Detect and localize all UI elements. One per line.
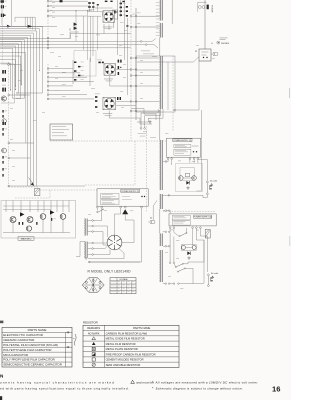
capacitor C21 column bbox=[2, 122, 7, 136]
transformer T1 bottom winding bbox=[159, 209, 162, 282]
board edge dash line right bbox=[130, 0, 132, 141]
wire bus vertical v3 bbox=[127, 18, 129, 95]
transistor Q14 circled bbox=[2, 119, 6, 123]
wire from P14 bbox=[10, 157, 30, 159]
wire from P15 bbox=[10, 185, 31, 187]
connector block frame bbox=[1, 64, 15, 103]
brace between tables bbox=[73, 334, 76, 345]
wires IC1 input network bbox=[88, 4, 113, 16]
wire bus vertical v2 bbox=[124, 0, 126, 60]
resistor R171 cluster bbox=[95, 94, 100, 108]
voltage selector plug figure bbox=[82, 278, 104, 292]
node pin P14 bbox=[8, 157, 10, 159]
wire from P12 bbox=[10, 94, 30, 96]
note schematic change bbox=[152, 386, 243, 390]
power input jack J1 bbox=[198, 0, 209, 17]
resistor chain R135 bbox=[120, 0, 126, 17]
IC3 label bbox=[103, 113, 113, 116]
svg-text:RESISTOR: RESISTOR bbox=[83, 320, 98, 324]
ground left of PS boxes bbox=[149, 120, 151, 122]
diode D41 bbox=[20, 212, 24, 216]
svg-text:16: 16 bbox=[272, 384, 280, 393]
resistor legend table bbox=[83, 325, 179, 367]
note volt meter bbox=[152, 380, 259, 384]
ground terminal jack bbox=[148, 201, 157, 224]
label LB20749 under pins bbox=[141, 51, 157, 57]
node pin P13 bbox=[8, 142, 10, 144]
svg-text:METAL OXIDE FILM RESISTOR: METAL OXIDE FILM RESISTOR bbox=[106, 337, 145, 341]
node outlet pin2 bbox=[207, 193, 209, 195]
wire harness fan to lower-left connector bbox=[0, 27, 43, 186]
diode D42 bbox=[50, 210, 54, 214]
svg-text:MICA CAPACITOR: MICA CAPACITOR bbox=[3, 353, 28, 357]
resistor R23 column bbox=[2, 156, 7, 177]
wire stub mark bbox=[69, 28, 71, 31]
wire top right riser bbox=[171, 0, 173, 24]
PS2 pins bbox=[96, 206, 142, 208]
wire IC3 stepped bus to transformer bbox=[109, 102, 156, 125]
svg-text:AC outlet: AC outlet bbox=[211, 272, 218, 275]
wires CN103 to preamp bbox=[49, 69, 94, 99]
transistor Q12 bbox=[2, 148, 7, 153]
pin pair PR1 bbox=[130, 14, 137, 17]
relay box PS3 bbox=[181, 245, 196, 250]
wire bus line B2 bbox=[0, 39, 156, 43]
phone jack J2 bbox=[211, 52, 218, 56]
svg-text:POWER: POWER bbox=[211, 5, 213, 13]
transistor marker dark bbox=[122, 209, 128, 214]
svg-text:SEMI VARIABLE RESISTOR: SEMI VARIABLE RESISTOR bbox=[106, 363, 141, 367]
wire outlet return bbox=[203, 195, 207, 198]
wire from P13 bbox=[10, 142, 34, 144]
coil pins to PS3 bbox=[163, 210, 170, 214]
selector wires bbox=[88, 214, 142, 262]
svg-text:FIRE PROOF CARBON FILM RESISTO: FIRE PROOF CARBON FILM RESISTOR bbox=[106, 352, 156, 356]
svg-text:ELECTROLYTIC CAPACITOR: ELECTROLYTIC CAPACITOR bbox=[3, 333, 43, 337]
IC2 label bbox=[104, 79, 113, 82]
coil left pins PS3 bbox=[163, 229, 170, 233]
transistor Q43 bbox=[40, 214, 46, 220]
svg-text:SEMICONDUCTIVE CERAMIC CAPACIT: SEMICONDUCTIVE CERAMIC CAPACITOR bbox=[3, 363, 62, 367]
ladder wires to coil taps bbox=[156, 3, 160, 36]
AC outlet SW1 bbox=[207, 179, 217, 192]
lower switch contacts bbox=[169, 262, 185, 272]
node arrow junction bbox=[7, 25, 11, 28]
hatched box mark bbox=[205, 229, 210, 238]
preamp resistor rows bbox=[73, 58, 90, 86]
resistor R21 column bbox=[2, 110, 7, 118]
diode D51 bbox=[187, 251, 190, 255]
relay network PS1 bbox=[172, 160, 203, 192]
PS3 labels bbox=[172, 215, 190, 225]
switch unit box bbox=[50, 124, 73, 140]
component value labels board 1 bbox=[10, 2, 100, 180]
wire amp return long bbox=[197, 110, 202, 191]
wire coil tap to PS1 bbox=[163, 160, 168, 163]
shield box IC1 bbox=[113, 10, 118, 19]
component value labels board 2 bbox=[88, 13, 215, 289]
pin pair PR2 bbox=[130, 26, 137, 28]
wire from P11 bbox=[9, 65, 21, 85]
coil mid pins bbox=[163, 245, 170, 247]
wire bus line B3 bbox=[0, 44, 158, 48]
resistor R41 bbox=[19, 218, 56, 225]
wire PS board left edge bbox=[146, 126, 148, 211]
wire left edge vertical bbox=[1, 0, 3, 25]
fuse component hatched bbox=[35, 189, 40, 196]
svg-text:ed with parts having specifica: ed with parts having specifications equa… bbox=[0, 387, 129, 391]
op-amp IC1 bbox=[103, 11, 115, 23]
selector outbound wires bbox=[76, 242, 140, 263]
wire bundle bend into power section bbox=[30, 185, 85, 187]
wire bus vertical v1 bbox=[117, 0, 119, 55]
electrolytic capacitor C15 bbox=[2, 85, 6, 92]
svg-text:POLYESTEL FILM CAPACITOR (MY: POLYESTEL FILM CAPACITOR (MYLAR) bbox=[3, 343, 58, 347]
stepped bus from winding bbox=[137, 109, 163, 129]
wire PR2 to transformer bbox=[137, 26, 160, 28]
wire vertical feed bbox=[11, 0, 13, 26]
svg-text:POWER SUPPLY (2): POWER SUPPLY (2) bbox=[121, 191, 139, 193]
component R105 bbox=[60, 0, 63, 2]
board edge dash left top bbox=[2, 25, 4, 62]
electrolytic capacitor C13 bbox=[2, 78, 6, 82]
svg-text:All voltages are measured with: All voltages are measured with a 15MΩ/V … bbox=[155, 380, 259, 384]
capacitor C103 block bbox=[1, 5, 7, 8]
board outline dashes bottom left bbox=[9, 187, 51, 198]
PS1 regulator labels bbox=[174, 144, 199, 155]
transformer T1 upper winding bbox=[159, 0, 162, 56]
wires PS3 network bbox=[170, 228, 207, 283]
mic amp board outline bbox=[1, 201, 76, 239]
headphone jack symbol bbox=[211, 41, 230, 45]
resistor symbol glyphs bbox=[92, 337, 96, 367]
wire bus line B4 bbox=[0, 47, 131, 49]
svg-text:NO MARK: NO MARK bbox=[88, 332, 100, 335]
arrow mark lower left bbox=[29, 178, 35, 186]
preamp shield box bbox=[74, 51, 96, 77]
electrolytic capacitor C11 bbox=[2, 70, 6, 74]
wire harness lower fan group bbox=[0, 53, 26, 99]
IC1 label bbox=[103, 27, 113, 29]
capacitor C105 block bbox=[1, 14, 6, 17]
node pin supply right bbox=[174, 109, 176, 111]
svg-text:AC outlet: AC outlet bbox=[210, 179, 217, 182]
connector pins CN101 bbox=[47, 0, 52, 17]
dashed link to power supply bbox=[40, 189, 97, 191]
selector lower pins bbox=[85, 258, 90, 263]
svg-text:POLY PROPYLENE FILM CAPACITO: POLY PROPYLENE FILM CAPACITOR bbox=[3, 358, 55, 362]
pin pair PR5 bbox=[130, 75, 137, 77]
svg-text:onents having special characte: onents having special characteristics ar… bbox=[0, 381, 115, 385]
PS2 labels bbox=[101, 194, 146, 205]
label below bus pins bbox=[138, 133, 147, 136]
label POWER vertical bbox=[211, 5, 213, 13]
board edge dash line left bbox=[8, 62, 10, 187]
wire pin4 bbox=[49, 15, 87, 17]
op-amp IC2 bbox=[104, 64, 116, 76]
svg-text:REMARKS: REMARKS bbox=[87, 326, 100, 330]
transformer taps bbox=[137, 58, 160, 111]
connector pins CN102 bbox=[47, 37, 49, 48]
rotary voltage selector SW51 bbox=[107, 235, 122, 250]
svg-text:POWER SUPPLY (3): POWER SUPPLY (3) bbox=[194, 217, 212, 219]
transformer frame box bbox=[136, 56, 175, 112]
ground PS1 bbox=[186, 186, 189, 189]
PS3 pins bbox=[169, 227, 201, 229]
power supply unit PS3 box bbox=[169, 214, 216, 226]
transistor Q42 bbox=[27, 217, 33, 223]
svg-text:Schematic diagram is subject t: Schematic diagram is subject to change w… bbox=[156, 386, 244, 390]
svg-text:POLYETHYLENE FILM CAPACITOR: POLYETHYLENE FILM CAPACITOR bbox=[3, 348, 51, 352]
capacitor C171 bbox=[117, 97, 121, 100]
label CAPACITOR cut bbox=[0, 321, 3, 324]
wire pin3 bbox=[49, 10, 92, 12]
wire board to amp block bbox=[137, 57, 199, 63]
wire PS1 bottom rail bbox=[163, 195, 203, 197]
pin pair PR3 bbox=[130, 57, 137, 59]
svg-text:VOLTAGE: VOLTAGE bbox=[119, 278, 128, 281]
pin pair PR4 bbox=[130, 69, 137, 71]
transistor Q32 bbox=[192, 176, 197, 181]
svg-text:METAL PLATE RESISTOR: METAL PLATE RESISTOR bbox=[106, 347, 138, 351]
AC outlet 2 bbox=[208, 272, 219, 287]
wire PR1 to transformer bbox=[137, 15, 160, 17]
connector pins CN103 bbox=[47, 68, 49, 100]
capacitor legend table bbox=[2, 327, 72, 367]
page edge tick 1 bbox=[289, 88, 291, 98]
wire between Q31 Q32 bbox=[183, 174, 192, 179]
transistor Q44 bbox=[60, 214, 66, 233]
svg-text:PHONES: PHONES bbox=[221, 43, 230, 45]
diode pair D101 bbox=[74, 22, 78, 30]
board edge dash right of transformer bbox=[172, 56, 174, 131]
diode D31 bbox=[186, 181, 189, 185]
node pin P11 bbox=[8, 64, 10, 66]
switch blade S31 bbox=[174, 229, 187, 237]
power supply unit PS1 box bbox=[166, 138, 200, 157]
ground PS3 bbox=[188, 256, 190, 258]
svg-text:CERAMIC CAPACITOR: CERAMIC CAPACITOR bbox=[3, 338, 34, 342]
capacitor C101 block at left edge bbox=[1, 0, 7, 3]
board outline dash PS3 bbox=[163, 210, 216, 212]
page corner artifact bbox=[0, 396, 2, 400]
bottom pin rail bbox=[163, 240, 204, 284]
svg-text:(MAIN MIC): (MAIN MIC) bbox=[21, 238, 32, 241]
resistor R151 cluster bbox=[97, 60, 104, 64]
PS1 pins bbox=[167, 158, 198, 160]
selector tap pins bbox=[88, 220, 94, 256]
transformer T1 low winding bbox=[159, 194, 162, 209]
svg-text:POWER SUPPLY (1): POWER SUPPLY (1) bbox=[174, 140, 192, 142]
wire bus line B1 bbox=[0, 34, 131, 39]
caution mark outlet bbox=[211, 184, 213, 186]
svg-text:PARTS NAME: PARTS NAME bbox=[28, 328, 47, 332]
wire IC2 to bus bbox=[110, 70, 131, 87]
mic block bottom rail bbox=[3, 214, 70, 232]
wire main bus right bbox=[135, 8, 137, 120]
selector coil L52 bbox=[84, 242, 87, 259]
svg-text:CARBON FILM RESISTOR (1/4W): CARBON FILM RESISTOR (1/4W) bbox=[106, 331, 148, 335]
pin pair PR7 bbox=[130, 101, 137, 103]
wire IC1 pins down bbox=[104, 22, 114, 34]
board outline dash top mid bbox=[50, 141, 166, 185]
wire pin2 bbox=[49, 5, 90, 7]
wire loop left of supply bbox=[167, 62, 169, 110]
transistor Q11 bbox=[1, 96, 6, 101]
wire power to phones node bbox=[204, 17, 206, 50]
switch blade S21 bbox=[97, 208, 104, 213]
note line 1 bbox=[0, 380, 154, 384]
power supply unit PS2 box bbox=[97, 189, 148, 206]
pin pair PR6 bbox=[130, 85, 137, 87]
wire outlet feed bbox=[198, 160, 208, 181]
board edge dash line P101 bbox=[47, 0, 49, 50]
transistor Q41 bbox=[10, 217, 16, 223]
svg-text:METAL FILM RESISTOR: METAL FILM RESISTOR bbox=[106, 342, 136, 346]
op-amp IC3 bbox=[103, 97, 116, 110]
wire arrow feed line bbox=[0, 25, 57, 28]
voltage selector table bbox=[110, 278, 136, 294]
transistor Q31 bbox=[179, 176, 184, 181]
board edge dash line lower bbox=[47, 64, 49, 100]
svg-text:PARTS NAME: PARTS NAME bbox=[133, 326, 150, 330]
wire amp down to supply bbox=[175, 61, 199, 110]
electrolytic capacitor C41 bbox=[26, 226, 31, 231]
wire bundle vertical risers bbox=[25, 95, 27, 143]
transformer T1 mid winding bbox=[159, 110, 162, 190]
vertical link wires to preamp bbox=[70, 10, 101, 62]
svg-text:R MODEL ONLY LB20149D: R MODEL ONLY LB20149D bbox=[88, 270, 132, 274]
wires PS2 down bbox=[102, 208, 142, 235]
node pin P15 bbox=[8, 185, 10, 187]
capacitor C151 cluster bbox=[118, 60, 122, 75]
wire top corner feed bbox=[15, 17, 35, 30]
node outlet pin1 bbox=[207, 181, 209, 183]
headphone amp block A1 bbox=[195, 49, 211, 61]
mic block wires top bbox=[3, 201, 69, 213]
node pin P12 bbox=[8, 94, 10, 96]
top edge component marks bbox=[105, 1, 125, 3]
resistor chain R139 bbox=[126, 6, 129, 27]
resistor network R131 bbox=[88, 2, 99, 9]
transformer T1 secondary winding bbox=[159, 56, 162, 109]
capacitor C131 bbox=[114, 11, 117, 14]
pin pair PR8 bbox=[130, 110, 137, 112]
capacitor symbol marks bbox=[66, 331, 70, 348]
mic board label bbox=[18, 237, 34, 241]
selector coil L51 bbox=[84, 219, 87, 236]
page edge tick 2 bbox=[289, 236, 291, 246]
wire pin1 to IC1 area bbox=[49, 0, 88, 2]
svg-text:CEMENT MOLDED RESISTOR: CEMENT MOLDED RESISTOR bbox=[106, 358, 144, 362]
